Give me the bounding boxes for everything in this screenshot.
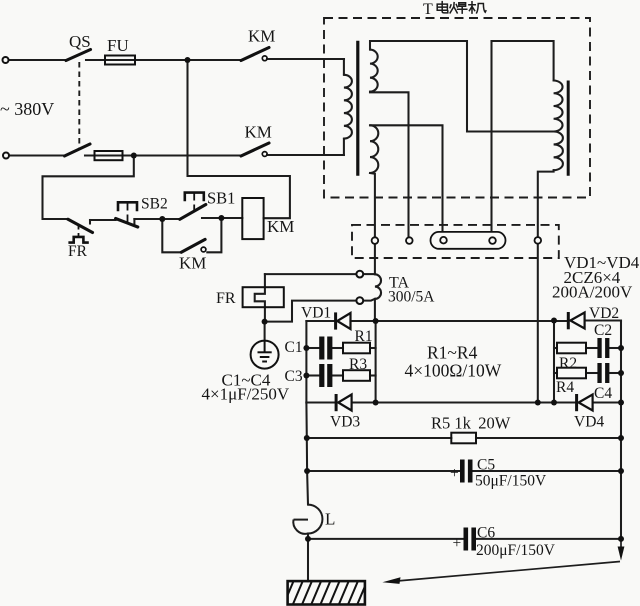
svg-text:R2: R2 (559, 355, 577, 372)
svg-text:SB1: SB1 (207, 189, 235, 208)
svg-text:C6: C6 (477, 525, 495, 542)
svg-text:C5: C5 (477, 457, 495, 474)
svg-text:KM: KM (179, 254, 206, 273)
svg-text:~ 380V: ~ 380V (0, 99, 54, 119)
svg-text:R4: R4 (556, 379, 574, 396)
svg-text:FR: FR (216, 290, 236, 307)
svg-text:KM: KM (248, 27, 275, 46)
svg-text:VD3: VD3 (330, 414, 360, 431)
svg-text:L: L (325, 510, 335, 529)
svg-text:VD1: VD1 (301, 305, 331, 322)
svg-text:+: + (450, 465, 459, 482)
svg-text:200μF/150V: 200μF/150V (476, 542, 556, 559)
svg-text:4×100Ω/10W: 4×100Ω/10W (405, 361, 502, 381)
svg-text:R1: R1 (355, 328, 373, 345)
svg-text:FU: FU (107, 36, 129, 55)
svg-text:C2: C2 (594, 322, 612, 339)
svg-text:KM: KM (267, 217, 294, 236)
svg-text:50μF/150V: 50μF/150V (475, 473, 547, 490)
svg-text:4×1μF/250V: 4×1μF/250V (202, 385, 290, 404)
svg-text:C3: C3 (285, 368, 303, 385)
svg-text:QS: QS (69, 32, 91, 51)
svg-text:R3: R3 (349, 356, 367, 373)
svg-text:C1: C1 (285, 339, 303, 356)
svg-text:200A/200V: 200A/200V (552, 283, 633, 302)
svg-text:SB2: SB2 (141, 196, 168, 213)
svg-text:R5 1k 20W: R5 1k 20W (431, 414, 511, 433)
svg-text:VD4: VD4 (574, 414, 604, 431)
svg-text:300/5A: 300/5A (388, 289, 435, 306)
svg-text:C4: C4 (594, 385, 612, 402)
svg-text:FR: FR (68, 243, 88, 260)
svg-text:T: T (423, 1, 433, 18)
svg-text:VD2: VD2 (589, 305, 619, 322)
svg-text:R1~R4: R1~R4 (427, 343, 478, 363)
svg-text:+: + (453, 535, 462, 552)
svg-text:KM: KM (245, 123, 272, 142)
